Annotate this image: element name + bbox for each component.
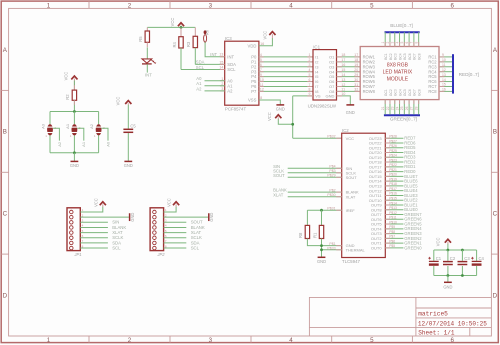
svg-text:VSS: VSS [248, 98, 257, 103]
driver IC2 TLC5947 box [342, 133, 386, 257]
module ROW pin names [363, 55, 438, 95]
wire cap top rail [434, 249, 477, 251]
svg-text:P$19: P$19 [389, 177, 397, 181]
wire P1 IC3 to IC1 [259, 61, 313, 63]
wire OUT7 [385, 214, 403, 216]
wire JP1 SDA stub [80, 242, 108, 244]
svg-text:D: D [493, 292, 498, 299]
junction cap rail C3 [461, 249, 464, 252]
svg-text:GND: GND [70, 163, 79, 168]
wire OUT0 [385, 247, 403, 249]
resistor R1 [319, 225, 323, 238]
wire green column 1 [384, 100, 386, 115]
wire green column 7 [413, 100, 415, 115]
wire OUT14 [385, 180, 403, 182]
wire OUT20 [385, 152, 403, 154]
wire blue column 8 [418, 32, 420, 46]
wire JP1 XLAT stub [80, 232, 108, 234]
wire A0 stub [205, 80, 225, 82]
svg-text:R5: R5 [138, 36, 143, 42]
svg-text:3: 3 [308, 63, 310, 67]
svg-text:13: 13 [341, 78, 345, 82]
wire OUT21 [385, 147, 403, 149]
wire JP1 pin2 to GND [80, 216, 129, 218]
svg-text:GREEN[0..7]: GREEN[0..7] [390, 117, 417, 122]
svg-text:6: 6 [260, 63, 262, 67]
svg-text:GC8: GC8 [417, 89, 421, 96]
wire C3 to bottom rail [461, 266, 463, 276]
svg-text:GND: GND [276, 107, 285, 112]
wire O4 IC1 to ROW4 [337, 71, 361, 73]
wire OUT10 [385, 199, 403, 201]
svg-text:GC2: GC2 [389, 89, 393, 96]
wire RC7 to bus [439, 85, 452, 87]
wire OUT13 [385, 185, 403, 187]
svg-text:SCL: SCL [191, 245, 200, 250]
wire OUT17 [385, 166, 403, 168]
svg-text:25: 25 [400, 106, 404, 110]
svg-text:SCL: SCL [196, 65, 205, 70]
supply VCC (top rail) [178, 23, 184, 26]
wire JP2 SCLK stub [164, 237, 187, 239]
svg-text:5: 5 [370, 337, 374, 344]
wire XLAT to IC2 [288, 196, 342, 198]
svg-text:C1: C1 [436, 256, 442, 261]
svg-text:7: 7 [410, 42, 414, 44]
svg-text:IC1: IC1 [313, 44, 320, 49]
svg-text:R6: R6 [204, 29, 209, 35]
wire green column 8 [418, 100, 420, 115]
resistor R4 [180, 27, 182, 36]
svg-text:5: 5 [260, 58, 262, 62]
svg-text:P$33: P$33 [327, 246, 335, 250]
svg-text:29: 29 [354, 73, 358, 77]
wire P0 IC3 to IC1 [259, 56, 313, 58]
frame column numbers top [47, 2, 455, 9]
wire top rail [147, 26, 195, 28]
svg-text:13: 13 [219, 53, 223, 57]
svg-text:LED MATRIX: LED MATRIX [383, 69, 413, 75]
bus RED[0..7] [452, 54, 454, 93]
wire jumper A2 output, net A0 [102, 128, 108, 140]
svg-text:5: 5 [400, 42, 404, 44]
frame row letters right [493, 47, 498, 300]
IC1 pin names [315, 55, 335, 99]
svg-text:12: 12 [341, 83, 345, 87]
wire VCC to junction [278, 119, 292, 124]
wire JP1 pin1 to VCC [80, 207, 103, 212]
wire OUT18 [385, 161, 403, 163]
supply VCC (R2) [71, 76, 77, 79]
svg-text:VCC: VCC [267, 112, 272, 121]
svg-text:6: 6 [308, 78, 310, 82]
svg-text:VS: VS [315, 94, 321, 99]
svg-text:3: 3 [221, 87, 223, 91]
svg-text:GC5: GC5 [403, 89, 407, 96]
svg-text:1: 1 [308, 53, 310, 57]
wire RC2 to bus [439, 61, 452, 63]
wire blue column 6 [408, 32, 410, 46]
wire P5 IC3 to IC1 [259, 81, 313, 83]
wire JP1 SCLK stub [80, 237, 108, 239]
svg-text:24: 24 [395, 106, 399, 110]
svg-text:5: 5 [308, 73, 310, 77]
ground GND (JP2) [208, 213, 210, 221]
wire P2 IC3 to IC1 [259, 66, 313, 68]
wire OUT2 [385, 237, 403, 239]
svg-text:20: 20 [354, 68, 358, 72]
svg-text:P$32: P$32 [327, 134, 335, 138]
driver IC1 UDN2982 box [313, 50, 337, 100]
svg-text:OUT0: OUT0 [371, 246, 382, 251]
svg-text:GND: GND [326, 94, 335, 99]
wire R6 to INT pin [205, 42, 225, 57]
wire VS rail vertical [292, 96, 294, 138]
svg-text:VCC: VCC [93, 198, 98, 207]
wire jumper A3 output, net A2 [53, 128, 59, 140]
svg-text:P$22: P$22 [389, 163, 397, 167]
wire OUT22 [385, 142, 403, 144]
wire OUT11 [385, 194, 403, 196]
ground GND (IC3 VSS) [276, 104, 284, 106]
svg-text:P$2: P$2 [329, 188, 335, 192]
svg-text:7: 7 [308, 83, 310, 87]
svg-text:P$30: P$30 [327, 193, 335, 197]
wire OUT9 [385, 204, 403, 206]
junction GND row [320, 244, 323, 247]
svg-text:21: 21 [381, 106, 385, 110]
solder jumper A1 [72, 124, 78, 135]
wire OUT8 [385, 209, 403, 211]
svg-text:6: 6 [405, 42, 409, 44]
svg-text:8X8 RGB: 8X8 RGB [387, 62, 409, 68]
wire JP2 pin1 to VCC [164, 207, 177, 212]
svg-text:P$23: P$23 [389, 158, 397, 162]
wire JP1 BLANK stub [80, 226, 108, 228]
wire P7 IC3 to IC1 [259, 90, 313, 92]
wire OUT6 [385, 218, 403, 220]
svg-text:P$17: P$17 [389, 187, 397, 191]
wire JP2 pin2 to GND [164, 216, 209, 218]
wire JP2 SDA stub [164, 242, 187, 244]
wire IREF [307, 209, 341, 211]
svg-text:3: 3 [209, 337, 213, 344]
wire RC5 to bus [439, 76, 452, 78]
svg-text:RC8: RC8 [428, 89, 437, 94]
wire O2 IC1 to ROW2 [337, 61, 361, 63]
junction cap rail VCC [447, 249, 450, 252]
wire cap bottom rail [434, 275, 477, 277]
resistor R5 [146, 27, 148, 31]
svg-text:4: 4 [289, 337, 293, 344]
svg-text:R2: R2 [65, 94, 70, 100]
svg-text:13: 13 [442, 73, 446, 77]
svg-text:4: 4 [308, 68, 310, 72]
svg-text:VCC: VCC [64, 72, 69, 81]
svg-text:RED[0..7]: RED[0..7] [459, 72, 479, 77]
IC2 left pin names [346, 136, 366, 253]
wire to GND [73, 153, 75, 162]
wire rail to jumpers [49, 112, 51, 125]
svg-text:GC3: GC3 [394, 89, 398, 96]
svg-text:Sheet: 1/1: Sheet: 1/1 [418, 329, 455, 336]
svg-text:GND: GND [209, 213, 214, 222]
svg-text:P$11: P$11 [389, 216, 397, 220]
svg-text:VCC: VCC [167, 198, 172, 207]
svg-text:18: 18 [341, 53, 345, 57]
wire green column 4 [399, 100, 401, 115]
svg-text:12/07/2014 10:50:25: 12/07/2014 10:50:25 [418, 320, 487, 327]
svg-text:A1: A1 [81, 141, 86, 147]
junction IREF [320, 209, 323, 212]
svg-text:4: 4 [289, 2, 293, 9]
svg-text:BC5: BC5 [403, 53, 407, 60]
wire IC1 GND to ground [337, 96, 351, 105]
svg-text:16: 16 [341, 63, 345, 67]
svg-text:BC7: BC7 [413, 53, 417, 60]
svg-text:R3: R3 [186, 41, 191, 47]
svg-text:INT: INT [145, 72, 152, 77]
capacitor C4 (polarized) [472, 260, 482, 262]
svg-text:P$4: P$4 [329, 165, 335, 169]
svg-text:JP2: JP2 [156, 252, 165, 257]
supply VCC (IC1/IC2) [275, 115, 281, 118]
svg-text:30: 30 [354, 78, 358, 82]
svg-text:A3: A3 [41, 123, 46, 129]
wire P3 IC3 to IC1 [259, 71, 313, 73]
wire jumper top rail [50, 111, 99, 113]
svg-text:IREF: IREF [346, 208, 356, 213]
wire R4 to SCL [180, 48, 182, 70]
IC2 OUT pin names [369, 136, 383, 251]
wire O7 IC1 to ROW7 [337, 85, 361, 87]
wire O5 IC1 to ROW5 [337, 76, 361, 78]
svg-text:5: 5 [370, 2, 374, 9]
module BC/GC pin names (rotated) [384, 53, 421, 96]
svg-text:GND: GND [443, 285, 452, 290]
svg-text:P$21: P$21 [389, 168, 397, 172]
wire IREF to R1 [321, 210, 323, 225]
wire R1 bottom / THERMAL [321, 239, 323, 258]
wire RC3 to bus [439, 66, 452, 68]
op IC3 PCF8574T box [225, 41, 259, 105]
svg-text:1: 1 [221, 77, 223, 81]
wire R3 to SDA [194, 48, 196, 65]
svg-text:P$14: P$14 [389, 201, 397, 205]
ground GND (jumpers) [71, 160, 79, 162]
svg-text:SCL: SCL [227, 67, 236, 72]
svg-text:11: 11 [260, 83, 264, 87]
svg-text:B: B [3, 129, 7, 136]
svg-text:PCF8574T: PCF8574T [225, 106, 247, 111]
module 8x8 RGB LED matrix box [360, 47, 439, 100]
svg-text:1: 1 [47, 337, 51, 344]
ground GND (cap bank) [444, 281, 452, 283]
wire IC1 VS to VCC rail [293, 95, 313, 97]
wire A1 stub [205, 85, 225, 87]
svg-text:14: 14 [341, 73, 345, 77]
wire blue column 5 [403, 32, 405, 46]
svg-text:19: 19 [354, 63, 358, 67]
bus BLUE[0..7] [385, 31, 420, 33]
wire rail to C2 [447, 250, 449, 261]
svg-text:VCC: VCC [170, 18, 175, 27]
svg-text:P$16: P$16 [389, 192, 397, 196]
wire OUT16 [385, 171, 403, 173]
wire OUT1 [385, 242, 403, 244]
svg-text:P$15: P$15 [389, 197, 397, 201]
wire JP1 SCL stub [80, 247, 108, 249]
svg-text:32: 32 [354, 88, 358, 92]
svg-text:2: 2 [221, 82, 223, 86]
svg-text:R8: R8 [298, 232, 303, 238]
svg-text:P$8: P$8 [389, 230, 395, 234]
frame row letters left [3, 47, 8, 300]
svg-text:R4: R4 [172, 41, 177, 47]
svg-text:BC1: BC1 [384, 53, 388, 60]
svg-text:26: 26 [405, 106, 409, 110]
resistor R3 [194, 27, 196, 36]
connector JP2 box [150, 208, 164, 251]
svg-text:BC3: BC3 [394, 53, 398, 60]
ground GND (JP1) [129, 213, 131, 221]
junction THERMAL row [320, 248, 323, 251]
wire JP2 XLAT stub [164, 232, 187, 234]
svg-text:MODULE: MODULE [387, 76, 409, 82]
junction top rail / VCC [180, 26, 183, 29]
wire O6 IC1 to ROW6 [337, 81, 361, 83]
wire OUT5 [385, 223, 403, 225]
wire RC8 to bus [439, 90, 452, 92]
svg-text:C: C [3, 211, 8, 218]
svg-text:2: 2 [386, 42, 390, 44]
wire OUT3 [385, 233, 403, 235]
svg-text:P$18: P$18 [389, 182, 397, 186]
svg-text:2: 2 [128, 2, 132, 9]
wire OUT15 [385, 175, 403, 177]
svg-text:P$12: P$12 [389, 211, 397, 215]
svg-text:P$28: P$28 [389, 135, 397, 139]
connector JP1 box [67, 208, 80, 251]
svg-text:ROW8: ROW8 [363, 89, 376, 94]
svg-text:C5: C5 [130, 124, 136, 129]
svg-text:C: C [493, 211, 498, 218]
svg-text:GREEN0: GREEN0 [404, 245, 422, 250]
wire bottom rail to GND [447, 276, 449, 283]
svg-text:6: 6 [450, 337, 454, 344]
solder jumper A3 [47, 124, 53, 135]
svg-text:P$7: P$7 [389, 235, 395, 239]
svg-text:31: 31 [354, 83, 358, 87]
wire SCL [181, 69, 225, 71]
svg-text:17: 17 [341, 58, 345, 62]
svg-text:BC4: BC4 [398, 53, 402, 60]
wire O3 IC1 to ROW3 [337, 66, 361, 68]
svg-text:2: 2 [128, 337, 132, 344]
svg-text:16: 16 [260, 42, 264, 46]
wire C1 to bottom rail [433, 266, 435, 276]
svg-text:4: 4 [260, 53, 262, 57]
svg-text:3: 3 [209, 2, 213, 9]
svg-text:BC8: BC8 [417, 53, 421, 60]
wire C2 to bottom rail [447, 266, 449, 276]
supply VCC (cap bank) [445, 239, 451, 242]
svg-text:P$27: P$27 [389, 139, 397, 143]
svg-text:P$13: P$13 [389, 206, 397, 210]
svg-text:P$31: P$31 [327, 206, 335, 210]
LED INT [142, 59, 156, 64]
svg-text:28: 28 [414, 106, 418, 110]
svg-text:VCC: VCC [346, 136, 355, 141]
svg-text:JP1: JP1 [73, 252, 81, 257]
svg-text:THERMAL: THERMAL [346, 247, 366, 252]
svg-text:P$1: P$1 [329, 242, 335, 246]
wire JP2 SOUT stub [164, 221, 187, 223]
wire R5 to LED [146, 47, 148, 58]
svg-text:P$20: P$20 [389, 173, 397, 177]
wire C5 to GND [127, 133, 129, 161]
capacitor C5 [123, 128, 133, 130]
capacitor C1 (polarized) [429, 260, 439, 262]
wire SOUT to IC2 [288, 176, 342, 178]
svg-text:P$9: P$9 [389, 225, 395, 229]
svg-text:BC2: BC2 [389, 53, 393, 60]
svg-text:VCC: VCC [116, 97, 121, 106]
capacitor C3 [458, 261, 468, 263]
wire JP2 SCL stub [164, 247, 187, 249]
wire C4 to bottom rail [476, 266, 478, 276]
wire green column 5 [403, 100, 405, 115]
wire R2 to rail [73, 100, 75, 111]
svg-text:matrice5: matrice5 [418, 311, 448, 318]
svg-text:GND: GND [124, 163, 133, 168]
svg-text:BLUE[0..7]: BLUE[0..7] [390, 23, 413, 28]
wire A2 stub [205, 90, 225, 92]
svg-text:UDN2982SLW: UDN2982SLW [308, 103, 337, 108]
svg-text:C3: C3 [464, 256, 470, 261]
svg-text:R1: R1 [312, 232, 317, 238]
svg-text:BC6: BC6 [408, 53, 412, 60]
svg-text:IC2: IC2 [342, 128, 349, 133]
IC3 pin stubs left [220, 57, 225, 91]
svg-text:A2: A2 [196, 86, 202, 91]
svg-text:15: 15 [442, 83, 446, 87]
wire green column 6 [408, 100, 410, 115]
svg-text:17: 17 [354, 53, 358, 57]
resistor R8 [305, 225, 309, 238]
wire rail to C4 [476, 250, 478, 261]
wire green column 3 [394, 100, 396, 115]
svg-text:P$25: P$25 [389, 149, 397, 153]
wire JP2 BLANK stub [164, 226, 187, 228]
wire RC1 to bus [439, 56, 452, 58]
wire R8 bottom to GND pin [307, 239, 341, 246]
wire BLANK to IC2 [288, 191, 342, 193]
svg-text:A2: A2 [89, 123, 94, 129]
supply VCC (IC3 VDD) [269, 32, 275, 35]
wire rail to C1 [433, 250, 435, 261]
svg-text:6: 6 [450, 2, 454, 9]
wire OUT4 [385, 228, 403, 230]
bus GREEN[0..7] [384, 114, 420, 116]
svg-text:GC1: GC1 [384, 89, 388, 96]
ground GND (IC2) [318, 256, 326, 258]
wire VCC to C5 [127, 105, 129, 129]
svg-text:A0: A0 [105, 141, 110, 147]
svg-text:7: 7 [260, 68, 262, 72]
svg-text:2: 2 [308, 58, 310, 62]
svg-text:8: 8 [414, 42, 418, 44]
